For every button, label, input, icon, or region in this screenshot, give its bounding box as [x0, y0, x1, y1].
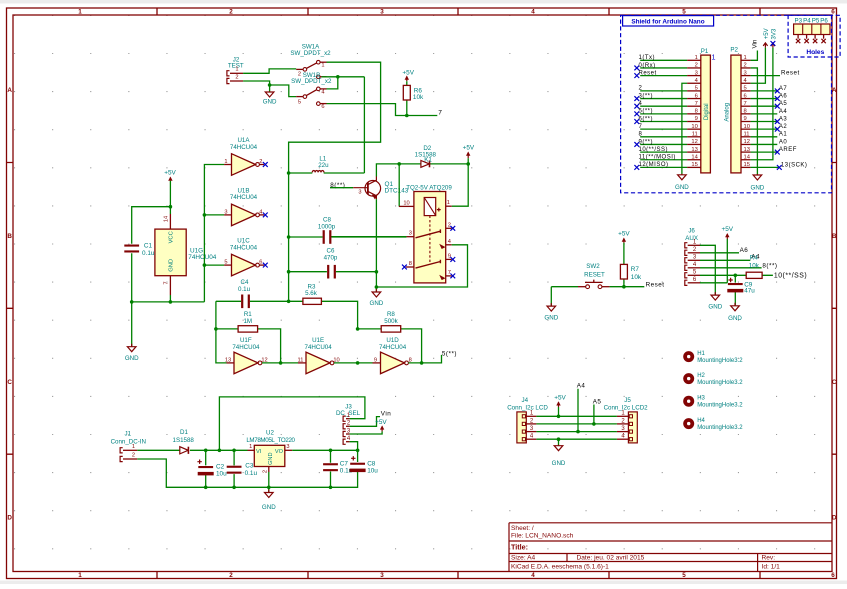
svg-text:3: 3 [286, 444, 289, 450]
svg-text:R4: R4 [750, 255, 759, 262]
svg-text:5: 5 [682, 9, 686, 16]
capacitor C9 47u [734, 275, 736, 305]
junction U1 pin7 rail [169, 300, 173, 304]
svg-text:Digital: Digital [704, 103, 710, 120]
svg-text:1: 1 [249, 444, 252, 450]
svg-text:1: 1 [235, 67, 238, 73]
junction C7 bottom [329, 486, 333, 490]
wire P2.15 13(SCK) [751, 166, 780, 168]
svg-text:GND: GND [125, 355, 139, 362]
svg-text:U2: U2 [266, 429, 274, 436]
svg-text:10: 10 [691, 124, 697, 130]
wire P2.13 AREF [751, 151, 778, 153]
svg-text:GND: GND [169, 259, 175, 272]
svg-text:11(**/MOSI): 11(**/MOSI) [639, 155, 676, 161]
regulator U2 LM78M05L_TO220 [254, 445, 284, 466]
svg-text:Shield for Arduino Nano: Shield for Arduino Nano [631, 18, 704, 25]
svg-text:C4: C4 [241, 279, 249, 286]
power +5V at K1 [467, 153, 469, 159]
svg-text:Conn_I2c LCD: Conn_I2c LCD [507, 404, 548, 411]
svg-text:Conn_I2c LCD2: Conn_I2c LCD2 [604, 404, 649, 411]
no-connect P2.9 [775, 119, 780, 124]
svg-text:VI: VI [256, 449, 262, 455]
junction R7 bottom [622, 285, 626, 289]
svg-text:1: 1 [78, 572, 82, 579]
junction R1 left [214, 327, 218, 331]
wire P1.11 8 [640, 136, 687, 138]
wire label to Q1 base [330, 187, 353, 189]
junction U1F output [279, 361, 283, 365]
wire U2 ground pin [268, 472, 270, 492]
wire P1.7 4 [640, 105, 687, 107]
K1 pin 10 [399, 205, 414, 207]
mounting hole H4 [683, 418, 694, 429]
capacitor C8a 10u [357, 450, 359, 462]
svg-text:7: 7 [695, 101, 698, 107]
svg-text:6(**): 6(**) [639, 116, 654, 122]
svg-text:GND: GND [728, 315, 742, 322]
svg-text:5: 5 [298, 99, 301, 105]
svg-text:A6: A6 [740, 247, 749, 254]
svg-text:74HCU04: 74HCU04 [188, 254, 217, 261]
junction R6 bottom [405, 114, 409, 118]
svg-text:10u: 10u [216, 471, 227, 478]
junction emitter/K1 return [375, 285, 379, 289]
wire J2.2 to GND and SW1B common [243, 81, 296, 97]
svg-text:10: 10 [403, 200, 409, 206]
svg-text:4: 4 [448, 239, 451, 245]
svg-text:6: 6 [831, 9, 835, 16]
svg-text:3: 3 [380, 9, 384, 16]
wire P2.6 A6 [751, 98, 778, 100]
transistor Q1 DTC143 [353, 177, 380, 200]
svg-text:74HCU04: 74HCU04 [232, 344, 260, 351]
svg-text:GND: GND [268, 452, 274, 464]
no-connect P1.3 [634, 73, 639, 78]
power +5V at R7 [623, 239, 625, 243]
svg-text:9: 9 [695, 116, 698, 122]
wire J3.1 select loop [219, 397, 365, 450]
svg-text:13: 13 [691, 147, 697, 153]
svg-text:H1: H1 [697, 351, 705, 357]
junction C8 left [287, 235, 291, 239]
svg-text:9(**): 9(**) [639, 139, 654, 145]
svg-text:RESET: RESET [584, 271, 605, 278]
junction C2 top [204, 449, 208, 453]
wire U2 output rail [292, 449, 357, 451]
svg-text:9: 9 [448, 253, 451, 259]
svg-text:A4: A4 [577, 383, 586, 390]
ground GND at C1 [127, 344, 136, 352]
svg-text:1000p: 1000p [318, 223, 336, 230]
svg-text:Reset: Reset [781, 70, 800, 77]
svg-text:10: 10 [744, 124, 750, 130]
wire P1.1 1(Tx) [640, 59, 687, 61]
wire unused-inputs column [204, 165, 224, 302]
svg-text:D: D [832, 515, 837, 522]
svg-text:10(**/SS): 10(**/SS) [774, 273, 807, 280]
no-connect P2.6 [775, 96, 780, 101]
svg-text:4: 4 [531, 572, 535, 579]
power +5V at J6 [726, 234, 728, 239]
wire P2.2 to GND [751, 68, 758, 175]
wire to K1 coil pin 10 [398, 164, 400, 207]
wire node to L1 right [363, 77, 365, 173]
svg-text:H2: H2 [697, 373, 705, 379]
svg-text:A6: A6 [779, 93, 788, 99]
junction L1 left [287, 171, 291, 175]
svg-text:A5: A5 [779, 101, 788, 107]
resistor R3 5.6k [289, 301, 358, 329]
resistor R8 500k [358, 329, 422, 363]
svg-text:MountingHole3.2: MountingHole3.2 [697, 403, 743, 409]
svg-text:P4: P4 [803, 17, 811, 24]
svg-text:8(**): 8(**) [762, 262, 777, 269]
svg-text:DTC143: DTC143 [385, 187, 409, 194]
svg-text:14: 14 [163, 216, 169, 222]
svg-text:P6: P6 [820, 17, 828, 24]
svg-text:C1: C1 [144, 243, 153, 250]
wire Q1 emitter rail to GND [375, 199, 377, 291]
wire P1.10 7 [640, 128, 687, 130]
svg-text:3: 3 [380, 572, 384, 579]
diode D2 1S1588 [399, 163, 468, 165]
svg-text:GND: GND [263, 98, 277, 105]
svg-text:5(**): 5(**) [639, 109, 654, 115]
wire U1 ground rail [132, 295, 205, 302]
svg-text:1: 1 [321, 63, 324, 69]
K1 pin 2 [446, 227, 452, 229]
wire LCD row3 A4 [536, 389, 617, 432]
wire P1.12 9(**) [640, 143, 687, 145]
no-connect P2.13 [775, 150, 780, 155]
svg-text:VCC: VCC [169, 231, 175, 243]
svg-text:4: 4 [321, 90, 324, 96]
junction C7 top [329, 449, 333, 453]
wire P1.5 2 [640, 90, 687, 92]
junction SW1 throws [336, 75, 340, 79]
svg-text:2: 2 [448, 222, 451, 228]
svg-text:0.1u: 0.1u [245, 470, 258, 477]
svg-text:A3: A3 [779, 116, 788, 122]
svg-text:D1: D1 [180, 429, 188, 436]
wire to K1 coil pin 1 [452, 164, 469, 206]
svg-text:1: 1 [447, 200, 450, 206]
junction U2 GND rail [267, 486, 271, 490]
junction C3 top [232, 449, 236, 453]
no-connect P1.9 [634, 119, 639, 124]
ground GND at J2 [265, 92, 274, 98]
svg-text:74HCU04: 74HCU04 [230, 194, 258, 201]
inductor L1 22u [289, 172, 365, 174]
junction C4/R3 node [287, 300, 291, 304]
resistor R7 10k [623, 243, 625, 287]
wire P2.11 A1 [751, 136, 778, 138]
svg-text:14: 14 [691, 154, 698, 160]
svg-text:8: 8 [409, 261, 412, 267]
svg-text:3(**): 3(**) [639, 93, 654, 99]
svg-text:10k: 10k [749, 262, 760, 269]
svg-text:Sheet: /: Sheet: / [511, 525, 534, 532]
svg-text:+5V: +5V [618, 230, 630, 237]
no-connect P1.8 [634, 111, 639, 116]
svg-text:9: 9 [374, 357, 377, 363]
svg-text:3: 3 [695, 70, 698, 76]
diode D1 1S1588 [180, 447, 188, 454]
wire Q1 collector to D2 row [376, 164, 399, 177]
ground GND at SW2 [547, 303, 556, 311]
capacitor C2 10u [205, 450, 207, 487]
svg-text:1S1588: 1S1588 [173, 437, 195, 444]
svg-text:MountingHole3.2: MountingHole3.2 [697, 380, 743, 386]
svg-text:13(SCK): 13(SCK) [781, 162, 808, 168]
wire J6.3 to A4 [700, 259, 750, 261]
mounting hole H1 [683, 351, 694, 362]
svg-text:74HCU04: 74HCU04 [379, 344, 407, 351]
svg-text:GND: GND [544, 315, 558, 322]
junction D2 cathode +5V [466, 162, 470, 166]
wire P1.13 10(**/SS) [640, 151, 687, 153]
svg-text:GND: GND [552, 460, 566, 467]
svg-text:10(**/SS): 10(**/SS) [639, 147, 669, 153]
wire J1.2 to ground rail [137, 459, 268, 487]
svg-text:7: 7 [438, 110, 442, 117]
ground GND at U2 [265, 490, 274, 498]
K1 pin 8 contact [406, 266, 414, 268]
svg-text:11: 11 [744, 132, 750, 138]
svg-text:C: C [7, 379, 12, 386]
svg-text:1(Tx): 1(Tx) [639, 55, 656, 61]
no-connect P1.6 [634, 96, 639, 101]
svg-text:MountingHole3.2: MountingHole3.2 [697, 358, 743, 364]
no-connect P1.7 [634, 104, 639, 109]
junction C6 left [287, 270, 291, 274]
svg-text:0.1u: 0.1u [238, 286, 251, 293]
wire P1.14 11(**/MOSI) [640, 159, 687, 161]
svg-text:12(MISO): 12(MISO) [639, 162, 669, 168]
ground GND at J4 [554, 445, 563, 451]
svg-text:Reset: Reset [639, 70, 657, 76]
svg-text:H3: H3 [697, 396, 705, 402]
wire P2.10 A2 [751, 128, 778, 130]
no-connect U1B output [263, 213, 268, 218]
wire J6.6 to +5V [700, 282, 727, 284]
wire LCD row2 A5 [536, 405, 617, 424]
svg-text:GND: GND [675, 184, 689, 191]
svg-text:10u: 10u [367, 468, 378, 475]
junction C2 bottom [204, 486, 208, 490]
wire U1D out to label [408, 355, 441, 363]
svg-text:A: A [832, 87, 837, 94]
junction R8 left node [356, 327, 360, 331]
svg-text:GND: GND [751, 184, 765, 191]
svg-text:2: 2 [229, 9, 233, 16]
svg-text:6: 6 [831, 572, 835, 579]
svg-text:1: 1 [695, 55, 698, 61]
ground GND at J6 [711, 292, 720, 300]
svg-text:8: 8 [639, 132, 643, 138]
wire P1.9 6(**) [640, 121, 687, 123]
junction C8a top / J3.4 [356, 449, 360, 453]
svg-text:2: 2 [298, 71, 301, 77]
junction DC_SEL feed [218, 449, 222, 453]
wire U1F out to U1E in [262, 362, 298, 364]
svg-text:3: 3 [358, 190, 361, 196]
wire P2.3 Reset [751, 75, 780, 77]
wire LCD row1 +5V [536, 415, 617, 417]
wire J6.2 to A6 [700, 252, 739, 254]
wire J3.3 to +5V [350, 431, 383, 434]
svg-text:P1: P1 [701, 48, 709, 55]
svg-text:Vin: Vin [752, 39, 759, 48]
IC U1 power unit 74HCU04 [155, 229, 186, 276]
svg-text:GND: GND [262, 504, 276, 511]
resistor R6 10k [406, 81, 408, 115]
svg-text:Date: jeu. 02 avril 2015: Date: jeu. 02 avril 2015 [577, 555, 645, 562]
svg-text:C: C [832, 379, 837, 386]
svg-text:+5V: +5V [722, 226, 734, 233]
svg-text:+5V: +5V [375, 419, 387, 426]
wire LCD row4 GND [536, 439, 617, 445]
junction +5V/C1 top [169, 205, 173, 209]
capacitor C8 1000p [289, 236, 407, 238]
svg-text:7: 7 [639, 124, 643, 130]
junction C9 top [734, 274, 738, 278]
capacitor C4 0.1u [216, 300, 289, 302]
wire SW1B.6 to R6 node [327, 104, 407, 116]
svg-text:12: 12 [691, 139, 697, 145]
svg-text:A7: A7 [779, 86, 788, 92]
K1 pin 4 [446, 244, 452, 246]
svg-text:15: 15 [744, 162, 750, 168]
svg-text:Id: 1/1: Id: 1/1 [762, 563, 781, 570]
svg-text:7: 7 [164, 281, 170, 284]
svg-text:3: 3 [744, 70, 747, 76]
svg-text:VO: VO [275, 449, 284, 455]
svg-text:B: B [832, 233, 837, 240]
K1 pin 1 [446, 205, 452, 207]
wire P1.6 3(**) [640, 98, 687, 100]
wire to label 7 [407, 115, 438, 117]
svg-text:2: 2 [132, 453, 135, 459]
wire P2.5 A7 [751, 90, 778, 92]
no-connect U1C output [263, 263, 268, 268]
shield dashed box [621, 15, 832, 193]
svg-text:5: 5 [695, 86, 698, 92]
svg-text:6: 6 [321, 104, 324, 110]
resistor R1 1M [216, 329, 281, 363]
wire P2.9 A3 [751, 121, 778, 123]
capacitor C7 0.1u [330, 450, 332, 487]
junction U1E output [356, 361, 360, 365]
shield title box [623, 16, 714, 26]
svg-text:47u: 47u [744, 287, 755, 294]
wire P2.14 to 3V3 [751, 48, 773, 160]
svg-text:H4: H4 [697, 418, 705, 424]
no-connect 3V3 [771, 41, 776, 46]
svg-text:J6: J6 [688, 228, 695, 235]
no-connect P1.2 [634, 66, 639, 71]
wire SW2 to Reset label [610, 286, 645, 288]
svg-text:A4: A4 [779, 109, 788, 115]
capacitor C1 0.1u [132, 207, 171, 347]
svg-text:5: 5 [682, 572, 686, 579]
svg-text:8: 8 [744, 109, 747, 115]
svg-text:File: LCN_NANO.sch: File: LCN_NANO.sch [511, 533, 574, 540]
svg-text:AREF: AREF [779, 147, 797, 153]
no-connect P2.5 [775, 89, 780, 94]
svg-text:A0: A0 [779, 139, 788, 145]
svg-text:A2: A2 [779, 124, 788, 130]
junction U1B input [203, 213, 207, 217]
svg-text:KiCad E.D.A. eeschema (5.1.6): KiCad E.D.A. eeschema (5.1.6)-1 [511, 563, 609, 570]
wire P2.4 to +5V [751, 48, 766, 84]
svg-text:2: 2 [229, 572, 233, 579]
junction D2 anode [397, 162, 401, 166]
wire P1.8 5(**) [640, 113, 687, 115]
ground GND at P2 [753, 174, 762, 180]
svg-text:J1: J1 [125, 430, 132, 437]
no-connect P2.10 [775, 127, 780, 132]
svg-text:1: 1 [132, 444, 135, 450]
power +5V at J4 [558, 402, 560, 407]
no-connect P2.15 [777, 165, 782, 170]
svg-text:2: 2 [695, 63, 698, 69]
ground GND at Q1 emitter [372, 289, 381, 297]
wire P1.2 0(Rx) [640, 67, 687, 69]
svg-text:P3: P3 [795, 17, 803, 24]
no-connect P2.7 [775, 104, 780, 109]
svg-text:SW2: SW2 [586, 263, 600, 270]
svg-text:J4: J4 [522, 397, 529, 404]
svg-text:2: 2 [262, 470, 268, 473]
wire J3.4 to output rail [350, 442, 358, 451]
svg-text:5.6k: 5.6k [305, 290, 318, 297]
svg-text:500k: 500k [384, 318, 398, 325]
holes dashed box [788, 15, 840, 57]
svg-text:6: 6 [695, 93, 698, 99]
ground GND at C9 [731, 303, 740, 311]
wire J6.4 to 8(**) [700, 267, 762, 269]
svg-text:+5V: +5V [764, 28, 770, 39]
mounting hole H2 [683, 373, 694, 384]
svg-text:0(Rx): 0(Rx) [639, 63, 656, 69]
power +5V at J3 [381, 426, 383, 431]
wire SW1A.3 / SW1B.4 join [322, 77, 365, 89]
junction U1D output [420, 361, 424, 365]
svg-text:TQ2-5V ATQ209: TQ2-5V ATQ209 [406, 185, 452, 192]
svg-text:1: 1 [744, 55, 747, 61]
power +5V at R6 [406, 77, 408, 82]
svg-text:Vin: Vin [381, 411, 392, 418]
svg-text:3: 3 [224, 209, 227, 215]
svg-text:1: 1 [78, 9, 82, 16]
svg-text:D: D [7, 515, 12, 522]
svg-text:74HCU04: 74HCU04 [305, 344, 333, 351]
wire P2.12 A0 [751, 143, 778, 145]
svg-text:7: 7 [744, 101, 747, 107]
svg-text:11: 11 [298, 357, 304, 363]
wire K1.4 return to emitter rail [376, 245, 467, 287]
svg-text:A: A [7, 87, 12, 94]
wire ground rail right to C8a [269, 472, 358, 488]
svg-text:+5V: +5V [402, 69, 414, 76]
svg-text:MountingHole3.2: MountingHole3.2 [697, 425, 743, 431]
wire J2.1 to SW1A common [243, 69, 296, 73]
junction emitter/C6 [375, 270, 379, 274]
wire J3.2 to Vin label [350, 417, 380, 427]
no-connect P1.12 [634, 142, 639, 147]
